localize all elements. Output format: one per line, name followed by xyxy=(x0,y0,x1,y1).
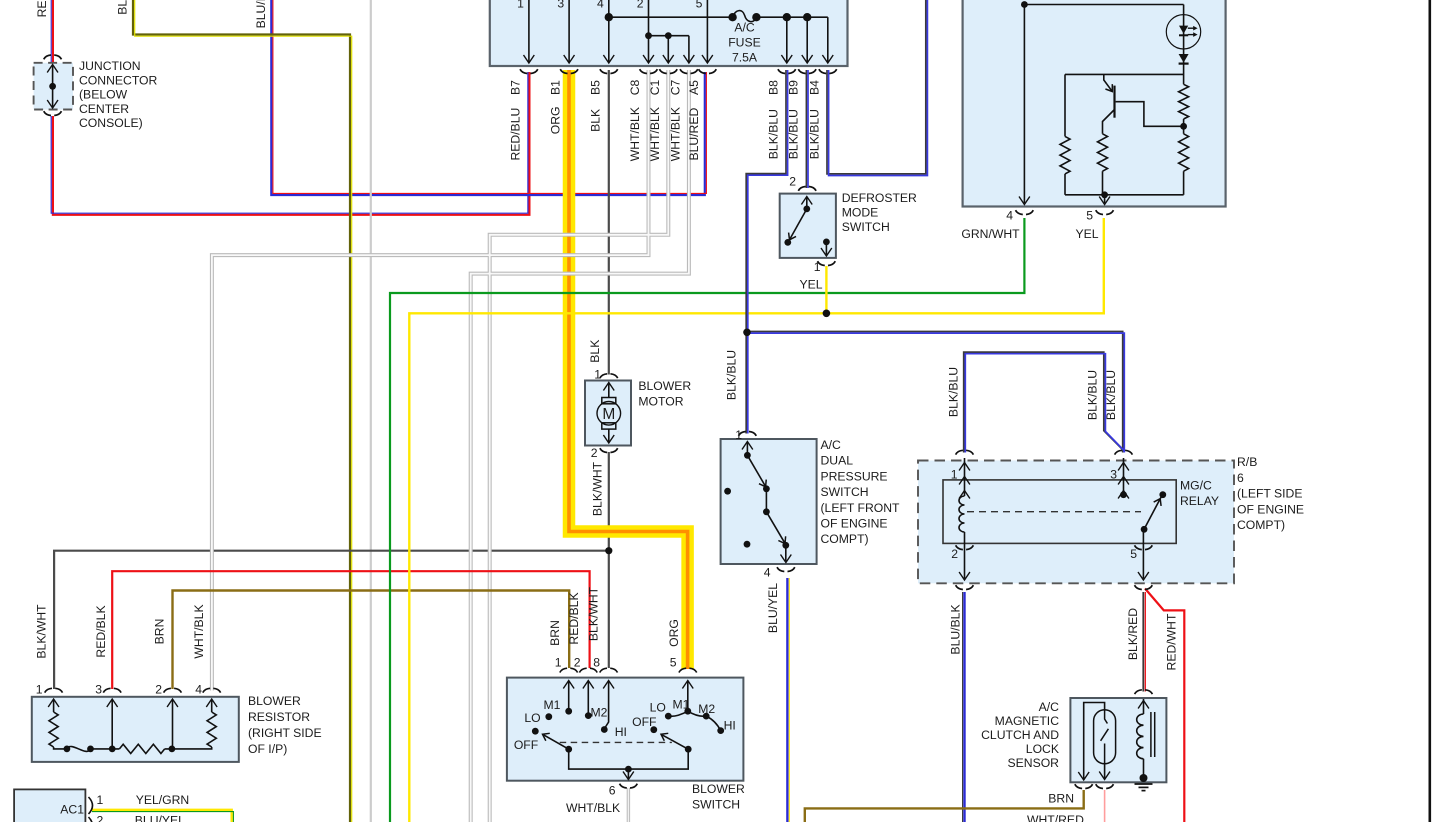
svg-text:SENSOR: SENSOR xyxy=(1008,756,1060,770)
svg-text:GRN/WHT: GRN/WHT xyxy=(961,227,1020,241)
svg-text:6: 6 xyxy=(609,784,616,798)
svg-text:BLK/BLU: BLK/BLU xyxy=(947,367,961,417)
svg-text:LO: LO xyxy=(524,711,540,725)
svg-text:BRN: BRN xyxy=(1048,792,1074,806)
svg-text:C8: C8 xyxy=(628,79,642,95)
svg-text:CONSOLE): CONSOLE) xyxy=(79,116,143,130)
svg-text:RESISTOR: RESISTOR xyxy=(248,710,310,724)
svg-text:1: 1 xyxy=(555,656,562,670)
svg-text:BLU/RED: BLU/RED xyxy=(687,108,701,161)
svg-text:DEFROSTER: DEFROSTER xyxy=(842,191,917,205)
svg-text:BLK/RED: BLK/RED xyxy=(1126,608,1140,660)
svg-text:BLK/YEL: BLK/YEL xyxy=(115,0,129,15)
svg-text:CENTER: CENTER xyxy=(79,102,129,116)
svg-text:4: 4 xyxy=(195,683,202,697)
svg-text:OFF: OFF xyxy=(632,715,656,729)
svg-text:COMPT): COMPT) xyxy=(821,532,869,546)
svg-text:M1: M1 xyxy=(673,698,690,712)
svg-text:BLU/BLK: BLU/BLK xyxy=(949,604,963,654)
svg-text:5: 5 xyxy=(1130,547,1137,561)
svg-text:MODE: MODE xyxy=(842,206,879,220)
svg-text:WHT/BLK: WHT/BLK xyxy=(566,801,620,815)
svg-text:BLK/BLU: BLK/BLU xyxy=(787,109,801,159)
svg-text:BLU/YEL: BLU/YEL xyxy=(766,583,780,633)
svg-text:A/C: A/C xyxy=(734,21,755,35)
svg-text:YEL: YEL xyxy=(799,278,822,292)
svg-text:BLK/BLU: BLK/BLU xyxy=(725,350,739,400)
svg-text:R/B: R/B xyxy=(1237,455,1257,469)
svg-text:4: 4 xyxy=(597,0,604,11)
svg-text:C7: C7 xyxy=(668,79,682,95)
svg-text:ORG: ORG xyxy=(549,106,563,134)
svg-text:OFF: OFF xyxy=(514,738,538,752)
svg-text:B5: B5 xyxy=(588,80,602,95)
svg-text:OF ENGINE: OF ENGINE xyxy=(821,517,888,531)
svg-text:3: 3 xyxy=(1110,468,1117,482)
svg-text:BLK: BLK xyxy=(588,340,602,363)
svg-text:1: 1 xyxy=(951,468,958,482)
svg-text:HI: HI xyxy=(724,719,736,733)
svg-text:1: 1 xyxy=(594,368,601,382)
svg-text:MG/C: MG/C xyxy=(1180,479,1212,493)
svg-text:BRN: BRN xyxy=(548,620,562,646)
svg-text:CONNECTOR: CONNECTOR xyxy=(79,73,158,87)
svg-text:5: 5 xyxy=(670,656,677,670)
svg-text:(LEFT SIDE: (LEFT SIDE xyxy=(1237,487,1302,501)
svg-text:B9: B9 xyxy=(787,80,801,95)
svg-text:4: 4 xyxy=(1006,209,1013,223)
svg-text:RED/BLU: RED/BLU xyxy=(35,0,49,17)
svg-text:JUNCTION: JUNCTION xyxy=(79,59,141,73)
svg-text:CLUTCH AND: CLUTCH AND xyxy=(981,728,1059,742)
svg-text:OF ENGINE: OF ENGINE xyxy=(1237,502,1304,516)
svg-text:WHT/BLK: WHT/BLK xyxy=(192,604,206,658)
svg-text:BLK/WHT: BLK/WHT xyxy=(590,461,604,516)
svg-text:2: 2 xyxy=(97,814,104,822)
svg-text:B4: B4 xyxy=(807,80,821,95)
svg-text:WHT/BLK: WHT/BLK xyxy=(668,107,682,161)
svg-text:BLOWER: BLOWER xyxy=(692,782,745,796)
svg-text:2: 2 xyxy=(637,0,644,11)
svg-text:BRN: BRN xyxy=(153,619,167,645)
svg-text:WHT/BLK: WHT/BLK xyxy=(628,107,642,161)
svg-text:BLU/RED: BLU/RED xyxy=(254,0,268,28)
svg-text:2: 2 xyxy=(951,547,958,561)
svg-text:5: 5 xyxy=(1086,209,1093,223)
svg-text:WHT/BLK: WHT/BLK xyxy=(648,107,662,161)
svg-text:BLK/BLU: BLK/BLU xyxy=(1086,370,1100,420)
svg-text:(BELOW: (BELOW xyxy=(79,88,128,102)
svg-text:BLU/YEL: BLU/YEL xyxy=(135,814,185,822)
svg-text:A5: A5 xyxy=(687,80,701,95)
svg-text:MAGNETIC: MAGNETIC xyxy=(995,714,1060,728)
svg-text:A/C: A/C xyxy=(821,438,842,452)
svg-text:6: 6 xyxy=(1237,471,1244,485)
svg-text:M1: M1 xyxy=(544,698,561,712)
svg-text:5: 5 xyxy=(696,0,703,11)
svg-text:1: 1 xyxy=(735,428,742,442)
svg-text:LO: LO xyxy=(650,700,666,714)
svg-text:SWITCH: SWITCH xyxy=(821,485,869,499)
svg-text:YEL/GRN: YEL/GRN xyxy=(136,793,190,807)
svg-text:1: 1 xyxy=(97,793,104,807)
svg-text:2: 2 xyxy=(591,446,598,460)
svg-text:BLK/BLU: BLK/BLU xyxy=(1104,370,1118,420)
svg-text:YEL: YEL xyxy=(1075,227,1098,241)
svg-text:OF I/P): OF I/P) xyxy=(248,742,287,756)
svg-text:BLK: BLK xyxy=(588,109,602,132)
svg-text:7.5A: 7.5A xyxy=(732,51,758,65)
svg-text:WHT/RED: WHT/RED xyxy=(1027,813,1084,822)
svg-text:B7: B7 xyxy=(508,80,522,95)
svg-text:3: 3 xyxy=(557,0,564,11)
svg-text:AC1: AC1 xyxy=(60,803,84,817)
svg-text:SWITCH: SWITCH xyxy=(842,220,890,234)
svg-text:BLK/WHT: BLK/WHT xyxy=(34,604,48,659)
svg-text:BLK/BLU: BLK/BLU xyxy=(807,109,821,159)
svg-text:RED/BLK: RED/BLK xyxy=(94,605,108,657)
svg-text:RED/BLK: RED/BLK xyxy=(567,592,581,644)
svg-text:BLOWER: BLOWER xyxy=(248,694,301,708)
svg-text:MOTOR: MOTOR xyxy=(638,395,683,409)
svg-text:3: 3 xyxy=(95,683,102,697)
svg-text:B1: B1 xyxy=(549,80,563,95)
svg-text:(LEFT FRONT: (LEFT FRONT xyxy=(821,501,901,515)
svg-text:RED/WHT: RED/WHT xyxy=(1165,613,1179,670)
svg-text:4: 4 xyxy=(764,566,771,580)
svg-text:M2: M2 xyxy=(591,705,608,719)
svg-text:RELAY: RELAY xyxy=(1180,494,1219,508)
svg-text:COMPT): COMPT) xyxy=(1237,518,1285,532)
svg-text:(RIGHT SIDE: (RIGHT SIDE xyxy=(248,726,322,740)
svg-text:DUAL: DUAL xyxy=(821,454,854,468)
svg-text:LOCK: LOCK xyxy=(1026,742,1059,756)
svg-text:SWITCH: SWITCH xyxy=(692,798,740,812)
svg-text:1: 1 xyxy=(814,260,821,274)
svg-text:1: 1 xyxy=(517,0,524,11)
svg-text:2: 2 xyxy=(789,175,796,189)
svg-text:1: 1 xyxy=(36,683,43,697)
svg-text:B8: B8 xyxy=(766,80,780,95)
svg-text:BLK/WHT: BLK/WHT xyxy=(587,586,601,641)
svg-text:2: 2 xyxy=(155,683,162,697)
svg-text:BLOWER: BLOWER xyxy=(638,379,691,393)
svg-text:BLK/BLU: BLK/BLU xyxy=(766,109,780,159)
svg-text:ORG: ORG xyxy=(667,619,681,647)
svg-text:M: M xyxy=(602,406,615,423)
svg-text:RED/BLU: RED/BLU xyxy=(508,108,522,161)
svg-text:C1: C1 xyxy=(648,79,662,95)
svg-text:8: 8 xyxy=(593,656,600,670)
svg-text:A/C: A/C xyxy=(1039,700,1060,714)
svg-text:M2: M2 xyxy=(698,702,715,716)
svg-text:2: 2 xyxy=(574,656,581,670)
svg-text:HI: HI xyxy=(615,725,627,739)
svg-text:FUSE: FUSE xyxy=(728,36,761,50)
svg-text:PRESSURE: PRESSURE xyxy=(821,469,888,483)
